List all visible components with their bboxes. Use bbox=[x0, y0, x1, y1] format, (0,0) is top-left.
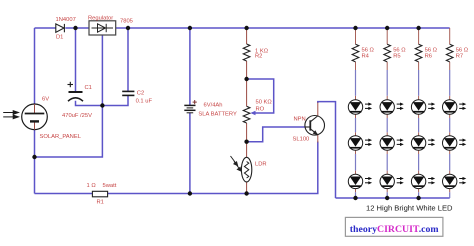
wire LED column 1 verticals bbox=[355, 28, 357, 192]
wire pot top lead bbox=[246, 79, 248, 106]
junction dot LED column2 top bbox=[385, 26, 389, 30]
battery plus sign bbox=[193, 100, 197, 104]
wire LDR top lead bbox=[246, 142, 248, 158]
wire ground bus left of R1 bbox=[35, 193, 93, 195]
transistor Q1 SL100 NPN bbox=[305, 116, 325, 136]
logo box theoryCIRCUIT.com bbox=[345, 217, 443, 236]
LED column3 row1 bbox=[411, 100, 435, 114]
junction dot LDR ground bbox=[244, 191, 248, 195]
diode D1 bbox=[56, 24, 65, 32]
LDR sensor bbox=[241, 157, 251, 182]
svg-text:6V: 6V bbox=[42, 97, 49, 103]
regulator U1 7805 box bbox=[89, 21, 116, 35]
svg-text:R4: R4 bbox=[362, 54, 370, 60]
svg-text:1 Ω: 1 Ω bbox=[87, 183, 97, 189]
LED column4 row2 bbox=[443, 136, 467, 150]
junction dot pot-LDR node bbox=[244, 140, 248, 144]
resistor R5 56 ohm bbox=[384, 44, 391, 62]
svg-text:1N4007: 1N4007 bbox=[56, 17, 76, 23]
svg-text:7805: 7805 bbox=[120, 18, 133, 24]
junction dot LED column3 top bbox=[416, 26, 420, 30]
potentiometer RO 50K bbox=[243, 106, 250, 123]
junction dot after diode D1 bbox=[73, 26, 77, 30]
LED column4 row3 bbox=[443, 174, 467, 188]
LED column1 row1 bbox=[348, 100, 372, 114]
junction dot R2 tap on top bus bbox=[244, 26, 248, 30]
wire LED column 4 verticals bbox=[449, 28, 451, 192]
resistor R6 56 ohm bbox=[415, 44, 422, 62]
wire LED bottom cathode bus bbox=[336, 197, 450, 199]
LED column2 row3 bbox=[380, 174, 404, 188]
junction dot LED column1 top bbox=[353, 26, 357, 30]
junction dot C2 tap on top bus bbox=[126, 26, 130, 30]
svg-text:SL100: SL100 bbox=[293, 136, 310, 142]
svg-text:R1: R1 bbox=[97, 200, 104, 206]
wire C2 top to top bus bbox=[127, 28, 129, 91]
wire left vertical from top bus to solar panel bbox=[34, 28, 36, 104]
wire collector red stub bbox=[317, 103, 319, 117]
svg-text:D1: D1 bbox=[56, 35, 63, 41]
wire R2 top lead bbox=[246, 28, 248, 44]
solar light arrow 2 bbox=[3, 115, 18, 119]
svg-text:SOLAR_PANEL: SOLAR_PANEL bbox=[40, 134, 82, 140]
resistor R4 56 ohm bbox=[352, 44, 359, 62]
junction dot LED bus col2 bbox=[385, 196, 389, 200]
wire top bus diode-to-regulator bbox=[65, 27, 89, 29]
wire LED column 2 verticals bbox=[386, 28, 388, 192]
wire R2 bottom lead to node bbox=[246, 61, 248, 79]
battery BT1 6V/4Ah bbox=[184, 105, 195, 112]
svg-text:R6: R6 bbox=[425, 54, 432, 60]
solar light arrow 1 bbox=[3, 111, 18, 115]
svg-text:5watt: 5watt bbox=[103, 183, 117, 189]
svg-text:0.1 uF: 0.1 uF bbox=[136, 98, 153, 104]
wire base connection from divider node bbox=[247, 127, 306, 142]
svg-text:12 High Bright White LED: 12 High Bright White LED bbox=[366, 204, 453, 213]
wire emitter red stub bbox=[317, 135, 319, 143]
svg-text:R7: R7 bbox=[456, 54, 463, 60]
wire pot wiper loop bbox=[247, 79, 274, 113]
wire battery top lead bbox=[189, 28, 191, 105]
junction dot solar panel ground bbox=[32, 155, 36, 159]
wire regulator ground pin down and left to panel ground bbox=[35, 35, 103, 157]
svg-text:470uF /25V: 470uF /25V bbox=[62, 113, 92, 119]
svg-text:LDR: LDR bbox=[255, 162, 267, 168]
wire LED column 3 verticals bbox=[418, 28, 420, 192]
capacitor C2 bbox=[122, 91, 134, 95]
wire ground bus right of R1 up to emitter bbox=[108, 142, 318, 194]
wire collector to LED cathode bus bbox=[318, 102, 336, 198]
wire top bus left segment bbox=[35, 27, 56, 29]
capacitor C1 electrolytic bbox=[68, 82, 84, 101]
LED column1 row3 bbox=[348, 174, 372, 188]
wire battery bottom lead bbox=[189, 113, 191, 194]
svg-text:6V/4Ah: 6V/4Ah bbox=[204, 103, 223, 109]
resistor R7 56 ohm bbox=[446, 44, 453, 62]
svg-text:R2: R2 bbox=[255, 54, 262, 60]
LDR light arrow 1 bbox=[231, 156, 238, 166]
svg-text:Regulator: Regulator bbox=[88, 15, 113, 21]
svg-text:C2: C2 bbox=[137, 91, 144, 97]
junction dot LED bus col1 bbox=[353, 196, 357, 200]
svg-text:R5: R5 bbox=[393, 54, 400, 60]
svg-text:NPN: NPN bbox=[294, 116, 306, 122]
wire C1/C2 bottom plate bus bbox=[76, 96, 129, 106]
potentiometer wiper arrow bbox=[250, 111, 255, 115]
LED column3 row3 bbox=[411, 174, 435, 188]
LED column2 row2 bbox=[380, 136, 404, 150]
wire C1 top to top bus bbox=[75, 28, 77, 92]
LED column1 row2 bbox=[348, 136, 372, 150]
junction dot R2-pot node bbox=[244, 77, 248, 81]
svg-text:50 KΩ: 50 KΩ bbox=[256, 99, 273, 105]
LED column4 row1 bbox=[443, 100, 467, 114]
wire pot bottom lead bbox=[246, 123, 248, 142]
junction dot regulator ground node bbox=[100, 103, 104, 107]
wire LDR bottom lead bbox=[246, 182, 248, 194]
svg-text:RO: RO bbox=[256, 106, 265, 112]
solar panel source bbox=[22, 104, 48, 130]
junction dot LED bus col3 bbox=[416, 196, 420, 200]
junction dot battery ground bbox=[188, 191, 192, 195]
LDR light arrow 2 bbox=[234, 162, 241, 172]
wire solar panel bottom to ground corner bbox=[34, 130, 36, 194]
svg-text:SLA BATTERY: SLA BATTERY bbox=[198, 111, 237, 117]
LED column3 row2 bbox=[411, 136, 435, 150]
wire top bus regulator-to-right-end bbox=[116, 27, 450, 29]
junction dot battery tap on top bus bbox=[188, 26, 192, 30]
resistor R2 1K bbox=[243, 44, 250, 61]
LED column2 row1 bbox=[380, 100, 404, 114]
svg-text:theoryCIRCUIT.com: theoryCIRCUIT.com bbox=[350, 224, 439, 235]
svg-text:C1: C1 bbox=[85, 85, 92, 91]
resistor R1 1 ohm 5watt bbox=[92, 191, 107, 197]
